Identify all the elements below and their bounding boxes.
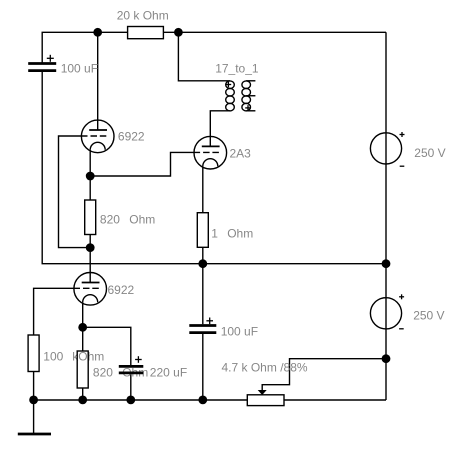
node dot mid rail C2 xyxy=(198,259,207,268)
triode U2 2A3 xyxy=(194,136,227,169)
wire 1 Ohm bottom xyxy=(202,247,204,263)
wire lower grid loop xyxy=(34,288,80,335)
transformer T1 primary coil xyxy=(226,81,235,111)
svg-text:100 uF: 100 uF xyxy=(61,62,98,76)
svg-text:220 uF: 220 uF xyxy=(150,366,187,380)
resistor R1 20 k Ohm xyxy=(128,27,164,39)
node dot 820 bottom xyxy=(86,243,95,252)
wire U1 grid loop xyxy=(59,136,91,248)
wire mid rail B+ xyxy=(42,72,386,264)
potentiometer 4.7 k Ohm xyxy=(247,395,284,406)
svg-text:100: 100 xyxy=(43,350,63,364)
svg-text:Ohm: Ohm xyxy=(227,227,253,241)
wire node to lower plate xyxy=(89,248,91,283)
svg-text:Ohm: Ohm xyxy=(129,212,155,226)
node dot top plate xyxy=(93,28,102,37)
wire bottom rail xyxy=(34,399,248,401)
transformer T1 primary + xyxy=(226,82,232,88)
wiper arrowhead xyxy=(258,390,267,395)
svg-text:100 uF: 100 uF xyxy=(221,325,258,339)
ground xyxy=(18,433,51,436)
wire 6922 plate feed xyxy=(97,32,99,130)
wire 820 column xyxy=(89,176,91,200)
wire mid rail to C2 xyxy=(202,264,204,325)
triode U1 6922 upper xyxy=(81,120,114,153)
transformer T1 secondary + xyxy=(245,105,251,111)
transformer T1 secondary stubs xyxy=(246,81,255,111)
transformer T1 secondary coil xyxy=(242,81,251,111)
wire 820L bottom xyxy=(82,388,84,400)
wire cathode node to 2A3 grid xyxy=(90,152,200,176)
node dot pot feed xyxy=(382,354,391,363)
node dot ground xyxy=(29,396,38,405)
svg-text:250 V: 250 V xyxy=(413,309,444,323)
resistor R3 1 Ohm xyxy=(197,213,208,248)
svg-text:820: 820 xyxy=(93,366,113,380)
svg-text:6922: 6922 xyxy=(108,283,135,297)
wire pot right to rail xyxy=(284,399,386,401)
wire ground stem xyxy=(33,400,35,434)
node dot C3 bottom xyxy=(126,396,135,405)
capacitor C1 100 uF xyxy=(28,62,56,65)
wire U1 cathode lead xyxy=(89,150,91,176)
wire pot wiper feed xyxy=(262,359,386,391)
source V1 250 V upper xyxy=(370,133,401,164)
source V2 250 V lower xyxy=(370,298,401,329)
svg-text:820: 820 xyxy=(100,212,120,226)
node dot U1 cathode xyxy=(86,172,95,181)
wire top rail xyxy=(42,32,127,63)
svg-text:2A3: 2A3 xyxy=(230,147,252,161)
wire C3 bottom xyxy=(130,374,132,400)
wire 820 bottom xyxy=(89,235,91,248)
node dot 820L bottom xyxy=(78,396,87,405)
node dot mid rail right xyxy=(382,259,391,268)
node dot C2 bottom xyxy=(198,396,207,405)
svg-text:20 k Ohm: 20 k Ohm xyxy=(117,9,169,23)
resistor R5 820 Ohm lower xyxy=(77,351,88,388)
svg-text:250 V: 250 V xyxy=(414,146,445,160)
wire primary bottom to 2A3 plate xyxy=(210,111,230,147)
svg-text:4.7 k Ohm /88%: 4.7 k Ohm /88% xyxy=(222,360,308,374)
wire lower cathode lead xyxy=(82,302,84,327)
node dot transformer feed xyxy=(174,28,183,37)
resistor R4 100 kOhm xyxy=(28,335,39,372)
wire 100k bottom xyxy=(33,372,35,401)
triode U3 6922 lower xyxy=(74,273,107,306)
resistor R2 820 Ohm xyxy=(85,200,96,235)
wire 2A3 cathode lead xyxy=(202,166,204,213)
svg-text:1: 1 xyxy=(211,227,218,241)
wire right rail xyxy=(385,32,387,400)
node dot lower cathode xyxy=(78,323,87,332)
wire 820L top xyxy=(82,327,84,351)
capacitor C2 100 uF lower xyxy=(189,324,216,327)
wire transformer feed xyxy=(178,32,230,81)
wire cathode node to C3 xyxy=(83,327,131,365)
svg-text:17_to_1: 17_to_1 xyxy=(215,62,259,76)
wire C2 bottom xyxy=(202,334,204,400)
svg-text:6922: 6922 xyxy=(118,129,145,143)
capacitor C3 220 uF xyxy=(119,365,144,368)
